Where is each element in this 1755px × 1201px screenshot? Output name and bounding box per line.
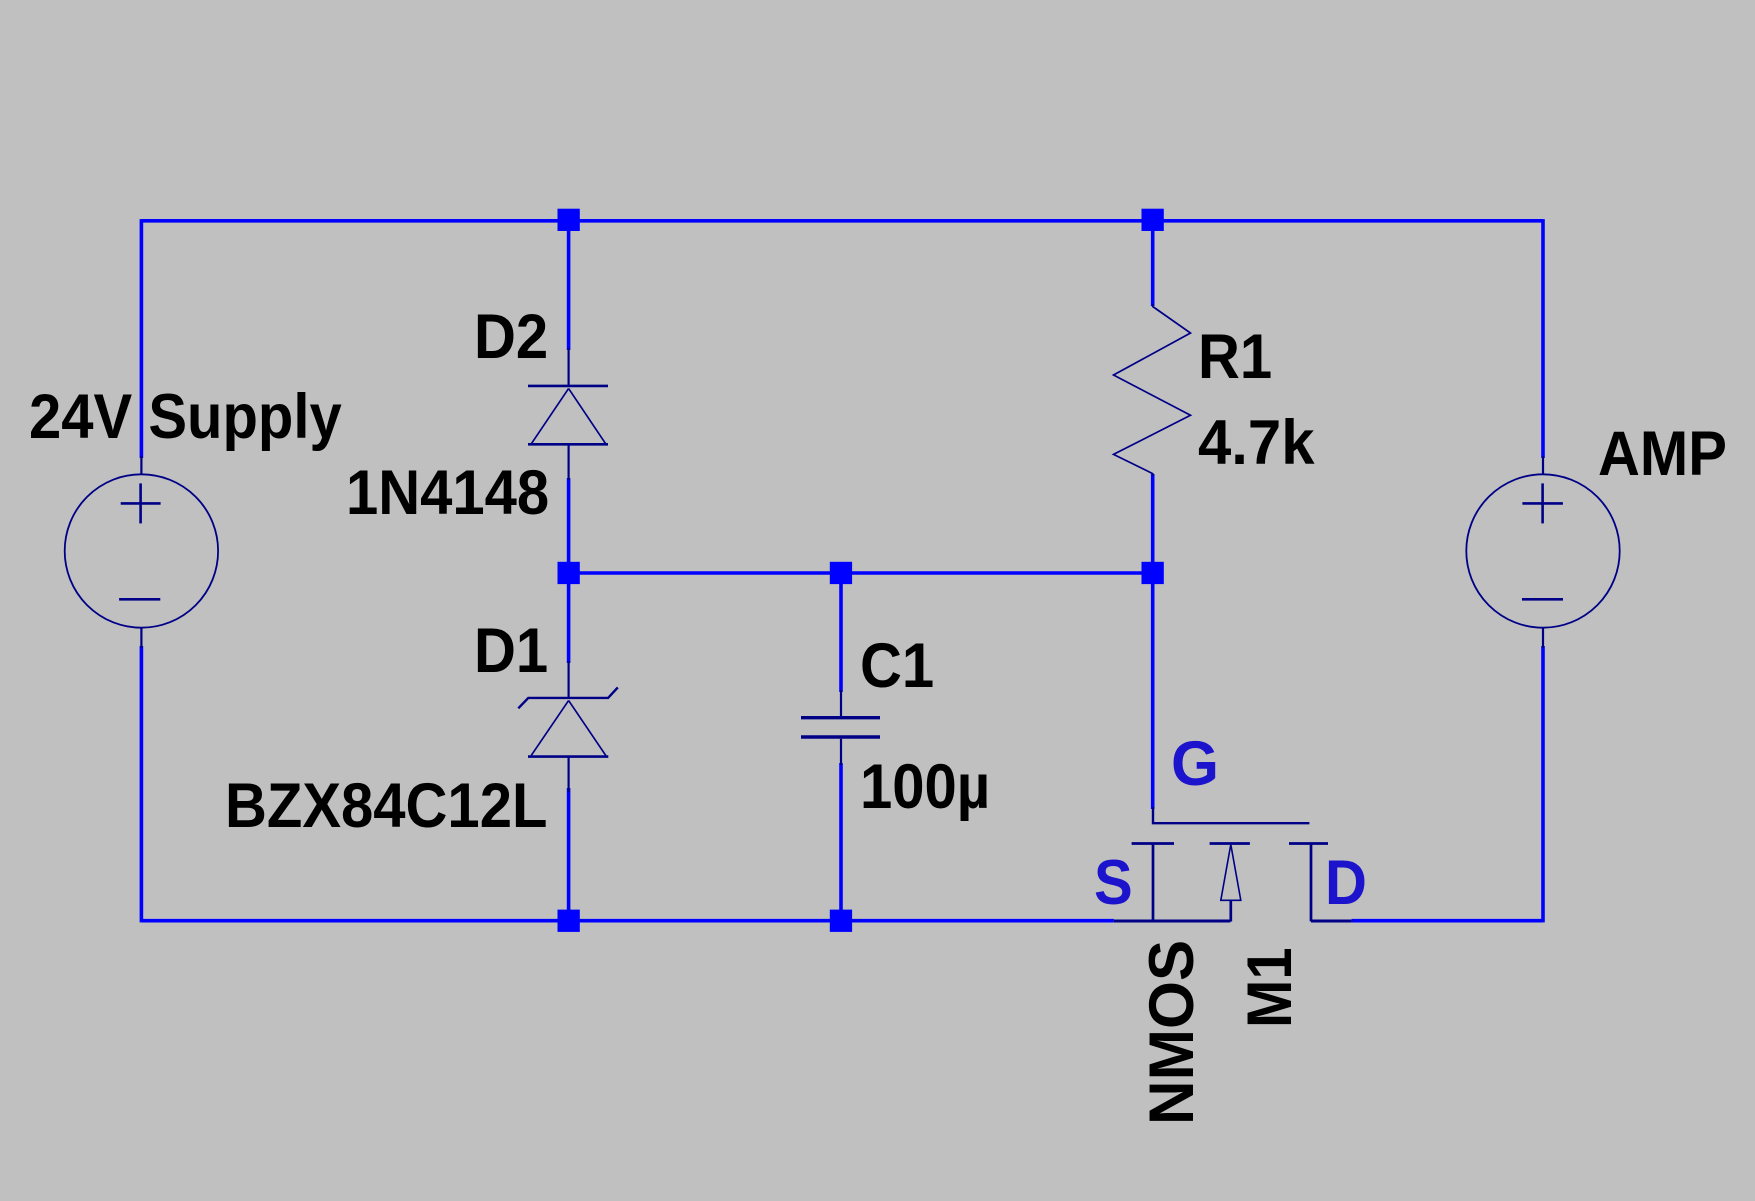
- wire C1 bottom: [839, 763, 843, 921]
- capacitor C1 100u: [801, 690, 880, 765]
- resistor R1 4.7k: [1114, 304, 1191, 476]
- voltage source V1 24V Supply: [65, 456, 218, 648]
- svg-text:BZX84C12L: BZX84C12L: [225, 770, 547, 841]
- svg-text:100µ: 100µ: [860, 751, 990, 822]
- wire left vertical upper: [140, 219, 144, 458]
- diode D2 1N4148: [528, 348, 608, 480]
- svg-text:D2: D2: [474, 301, 548, 372]
- wire D1 branch top: [567, 573, 571, 663]
- wire left vertical lower: [140, 646, 144, 922]
- svg-text:R1: R1: [1198, 321, 1272, 392]
- svg-text:G: G: [1171, 729, 1219, 799]
- wire bottom rail left: [141, 919, 1114, 923]
- svg-text:NMOS: NMOS: [1137, 940, 1207, 1125]
- wire R1 bottom: [1151, 474, 1155, 573]
- wire right vertical lower: [1541, 646, 1545, 922]
- wire gate branch: [1151, 573, 1155, 809]
- node mid C1: [830, 562, 852, 584]
- svg-text:1N4148: 1N4148: [346, 457, 549, 528]
- node bottom C1: [830, 910, 852, 932]
- svg-text:4.7k: 4.7k: [1198, 408, 1315, 479]
- svg-text:D: D: [1325, 847, 1367, 918]
- wire right vertical upper: [1541, 219, 1545, 458]
- svg-text:D1: D1: [474, 615, 548, 686]
- wire C1 top: [839, 573, 843, 692]
- node bottom D1: [558, 910, 580, 932]
- wire D2 branch top: [567, 221, 571, 350]
- svg-text:C1: C1: [860, 630, 934, 701]
- wire D1 to bottom rail: [567, 788, 571, 921]
- node top R1: [1142, 209, 1164, 231]
- svg-text:S: S: [1094, 847, 1133, 918]
- svg-text:AMP: AMP: [1598, 418, 1727, 489]
- node top D2: [558, 209, 580, 231]
- svg-text:M1: M1: [1234, 947, 1305, 1028]
- wire R1 top: [1151, 221, 1155, 306]
- nmos transistor M1: [1114, 807, 1352, 922]
- svg-text:24V Supply: 24V Supply: [29, 381, 342, 452]
- wire D2 to mid rail: [567, 478, 571, 573]
- wire bottom rail right: [1352, 919, 1543, 923]
- wire mid rail: [569, 571, 1153, 575]
- node mid R1-gate: [1142, 562, 1164, 584]
- voltage source AMP: [1466, 456, 1619, 648]
- wire top rail: [141, 219, 1543, 223]
- node mid D1-D2: [558, 562, 580, 584]
- zener diode D1 BZX84C12L: [518, 661, 618, 792]
